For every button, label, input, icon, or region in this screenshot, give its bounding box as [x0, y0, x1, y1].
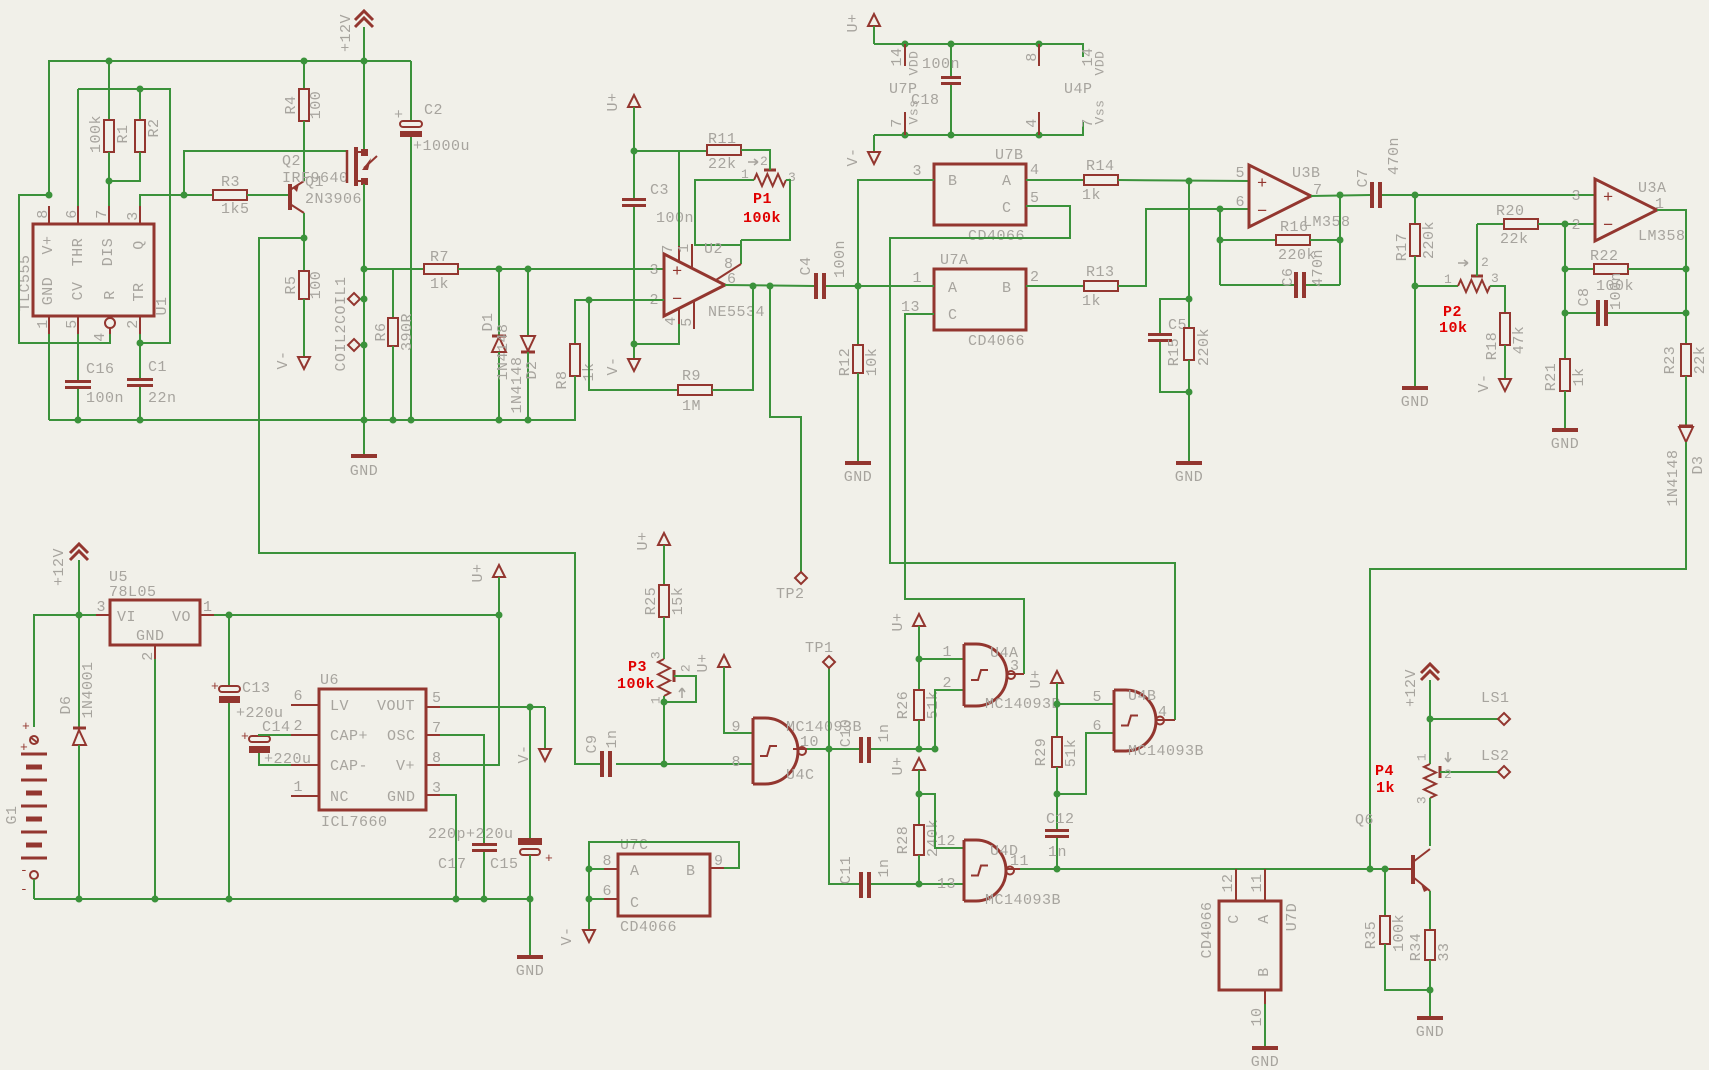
wire MOSFET source to rail [363, 61, 365, 149]
IC U7B CD4066 [934, 164, 1026, 225]
svg-text:V-: V- [845, 147, 862, 166]
svg-text:2N3906: 2N3906 [305, 191, 362, 208]
svg-text:U6: U6 [320, 672, 339, 689]
svg-text:R12: R12 [837, 348, 854, 377]
wire U4A pin1 [919, 658, 964, 660]
wire C14 to CAP- [259, 753, 291, 765]
svg-text:+: + [545, 851, 553, 866]
svg-text:11: 11 [1010, 853, 1029, 870]
svg-text:1k: 1k [1082, 293, 1101, 310]
resistor R29 51k [1056, 704, 1058, 737]
svg-text:U+: U+ [890, 612, 907, 631]
wire R9 left leg [589, 300, 678, 390]
NAND gate U4C MC14093B [753, 718, 798, 784]
svg-text:1: 1 [676, 243, 693, 253]
svg-text:7: 7 [660, 244, 677, 254]
diode D3 1N4148 [1679, 425, 1693, 428]
svg-text:+: + [211, 679, 219, 694]
battery G1 [30, 736, 38, 744]
svg-text:1n: 1n [876, 723, 893, 742]
svg-text:51k: 51k [925, 691, 942, 720]
svg-text:3: 3 [1571, 188, 1581, 205]
svg-text:A: A [948, 280, 958, 297]
wire bottom gnd rail [34, 898, 530, 900]
NAND gate U4D MC14093B [964, 840, 1006, 901]
svg-text:B: B [1256, 967, 1273, 977]
wire R14 node to C5 R15 [1188, 181, 1190, 299]
svg-text:P1: P1 [753, 191, 772, 208]
supply V- below R5 [298, 357, 310, 369]
svg-text:8: 8 [602, 853, 612, 870]
svg-text:220k: 220k [1421, 221, 1438, 259]
ground GND below U7D [1252, 1046, 1278, 1050]
svg-text:LS1: LS1 [1481, 690, 1510, 707]
resistor R7 [364, 268, 424, 270]
wire U3B output [1311, 195, 1370, 196]
svg-text:U+: U+ [845, 13, 862, 32]
svg-text:+: + [241, 729, 249, 744]
resistor R15 220k [1188, 299, 1190, 328]
wire D3 to Q6 base route [1370, 442, 1686, 869]
resistor R2 [139, 89, 141, 120]
resistor R23 22k [1681, 344, 1691, 376]
svg-text:C16: C16 [86, 361, 115, 378]
svg-text:2: 2 [1030, 269, 1040, 286]
svg-text:VOUT: VOUT [377, 698, 415, 715]
svg-text:14: 14 [889, 47, 906, 66]
svg-text:V+: V+ [396, 758, 415, 775]
supply U+ above R25 [658, 533, 670, 545]
svg-text:D3: D3 [1690, 455, 1707, 474]
svg-text:GND: GND [1401, 394, 1430, 411]
supply U+ above U4B pin5 [1051, 671, 1063, 683]
svg-text:3: 3 [1491, 271, 1499, 286]
svg-text:+: + [672, 263, 683, 282]
svg-text:R13: R13 [1086, 264, 1115, 281]
svg-text:1: 1 [942, 644, 952, 661]
svg-text:VO: VO [172, 609, 191, 626]
svg-text:2: 2 [1444, 767, 1452, 782]
capacitor C3 [633, 151, 635, 198]
svg-text:2: 2 [942, 675, 952, 692]
wire C14 to CAP+ [259, 735, 291, 736]
svg-text:C10: C10 [838, 719, 855, 748]
resistor R34 33 [1425, 930, 1435, 960]
resistor R35 100k [1384, 869, 1386, 916]
svg-text:GND: GND [1175, 469, 1204, 486]
ground GND below R21 [1552, 428, 1578, 432]
svg-text:GND: GND [1416, 1024, 1445, 1041]
svg-text:COIL2COIL1: COIL2COIL1 [333, 276, 350, 371]
svg-text:R8: R8 [554, 370, 571, 389]
wire U7A pin1 [858, 285, 934, 287]
svg-text:Q: Q [131, 240, 148, 250]
svg-text:Q2: Q2 [282, 153, 301, 170]
resistor R1 [108, 61, 110, 120]
svg-text:P4: P4 [1375, 763, 1394, 780]
potentiometer P4 1k [1429, 719, 1431, 764]
wire U3B feedback node [1219, 209, 1221, 285]
IC U7A CD4066 [934, 269, 1026, 330]
capacitor C18 [950, 44, 952, 76]
wire U4B pin6 [1057, 733, 1114, 794]
svg-text:THR: THR [70, 238, 87, 267]
svg-text:220p: 220p [428, 826, 466, 843]
wire pin4 to V- [634, 324, 679, 344]
wire U7A pin13 control route [905, 314, 1024, 674]
svg-text:5: 5 [432, 690, 442, 707]
svg-text:100k: 100k [1391, 914, 1408, 952]
supply U+ above R28 [913, 758, 925, 770]
svg-text:R4: R4 [283, 95, 300, 114]
svg-text:GND: GND [844, 469, 873, 486]
svg-text:R3: R3 [221, 174, 240, 191]
NAND gate U4B MC14093B [1114, 690, 1156, 751]
svg-text:LS2: LS2 [1481, 748, 1510, 765]
svg-text:CAP-: CAP- [330, 758, 368, 775]
svg-text:5: 5 [1030, 190, 1040, 207]
resistor R14 [1084, 175, 1118, 185]
wire U7B pin4 to R14 [1026, 179, 1084, 181]
supply U+ above C3 [628, 95, 640, 107]
wire U4B pin5 [1057, 703, 1114, 705]
svg-text:1n: 1n [604, 729, 621, 748]
svg-text:100n: 100n [922, 56, 960, 73]
supply V- below U7C [583, 930, 595, 942]
wire VSS rail [874, 122, 1083, 135]
svg-text:78L05: 78L05 [109, 584, 157, 601]
wire pin1 to ground rail [48, 334, 50, 420]
svg-text:3: 3 [1010, 658, 1020, 675]
svg-text:+12V: +12V [338, 14, 355, 52]
svg-text:V-: V- [1476, 373, 1493, 392]
svg-text:R11: R11 [708, 131, 737, 148]
svg-text:9: 9 [731, 719, 741, 736]
svg-text:3: 3 [648, 651, 663, 659]
wire U7A pin2 to R13 [1026, 285, 1084, 287]
svg-text:22k: 22k [1500, 231, 1529, 248]
wire gate line [184, 151, 348, 195]
svg-text:U4B: U4B [1128, 688, 1157, 705]
svg-text:1n: 1n [1048, 844, 1067, 861]
svg-text:LM358: LM358 [1638, 228, 1686, 245]
op-amp U2 pin1 stub [691, 244, 693, 269]
wire U7B pin5 control route [890, 206, 1175, 720]
svg-text:ICL7660: ICL7660 [321, 814, 388, 831]
resistor R28 240k [918, 794, 920, 825]
svg-text:U+: U+ [1028, 669, 1045, 688]
svg-text:1: 1 [203, 599, 213, 616]
svg-text:D2: D2 [524, 360, 541, 379]
svg-text:R22: R22 [1590, 248, 1619, 265]
svg-text:2: 2 [293, 718, 303, 735]
svg-text:GND: GND [1251, 1054, 1280, 1070]
IC U5 78L05 [110, 600, 200, 645]
svg-text:C17: C17 [438, 856, 467, 873]
wire pin2 input [575, 300, 664, 344]
potentiometer P3 100k [658, 659, 670, 696]
wire bottom rail [49, 376, 575, 420]
resistor R11 [679, 150, 707, 152]
resistor R9 [678, 385, 712, 395]
svg-text:C6: C6 [1280, 267, 1297, 286]
svg-text:100n: 100n [656, 210, 694, 227]
wire U5 output 5V line [214, 614, 499, 616]
wire U4C output [807, 748, 859, 750]
wire P1 pin1 loop [695, 180, 754, 245]
svg-text:R15: R15 [1166, 338, 1183, 367]
wire Q6 emitter [1429, 891, 1431, 930]
svg-text:CAP+: CAP+ [330, 728, 368, 745]
wire Q output node [140, 195, 184, 206]
svg-text:22n: 22n [148, 390, 177, 407]
svg-text:A: A [1256, 914, 1273, 924]
svg-text:R23: R23 [1662, 346, 1679, 375]
svg-text:3: 3 [912, 163, 922, 180]
svg-text:U4P: U4P [1064, 81, 1093, 98]
wire P2 pin3 to R18 [1490, 286, 1505, 313]
svg-text:R: R [102, 290, 119, 300]
svg-text:R20: R20 [1496, 203, 1525, 220]
svg-text:VDD: VDD [906, 51, 921, 76]
svg-text:C11: C11 [838, 856, 855, 885]
wire U4C pin9 [724, 667, 753, 733]
svg-text:C3: C3 [650, 182, 669, 199]
capacitor C1 [139, 334, 141, 378]
supply U+ above U6 [493, 565, 505, 577]
svg-text:V-: V- [275, 350, 292, 369]
svg-text:2: 2 [678, 664, 693, 672]
svg-text:1n: 1n [876, 858, 893, 877]
svg-text:CV: CV [70, 281, 87, 300]
wire U6 GND pin3 [440, 795, 456, 899]
svg-text:5: 5 [1092, 689, 1102, 706]
svg-text:D6: D6 [58, 695, 75, 714]
svg-text:22k: 22k [1692, 346, 1709, 375]
wire MOSFET drain down [363, 184, 365, 420]
svg-text:R5: R5 [283, 275, 300, 294]
svg-text:G1: G1 [4, 805, 21, 824]
svg-text:1: 1 [912, 270, 922, 287]
NAND gate U4A MC14093B [964, 644, 1007, 706]
svg-text:51k: 51k [1063, 739, 1080, 768]
capacitor C4 [814, 273, 818, 299]
svg-text:1M: 1M [682, 398, 701, 415]
svg-text:V-: V- [559, 926, 576, 945]
svg-text:MC14093B: MC14093B [1128, 743, 1204, 760]
svg-text:4: 4 [1158, 704, 1168, 721]
capacitor C14 polarized [249, 736, 270, 742]
IC U6 ICL7660 [319, 689, 426, 810]
svg-text:GND: GND [350, 463, 379, 480]
wire U4C out down to C11 [829, 749, 859, 884]
svg-text:390R: 390R [399, 313, 416, 351]
svg-text:47k: 47k [1511, 326, 1528, 355]
svg-text:IRF9640: IRF9640 [282, 170, 349, 187]
svg-text:U2: U2 [704, 241, 723, 258]
svg-text:220k: 220k [1196, 328, 1213, 366]
svg-text:R7: R7 [430, 249, 449, 266]
wire pin8 node [46, 192, 53, 199]
resistor R4 [303, 61, 305, 89]
wire U3B output feedback [1339, 195, 1341, 285]
svg-text:1k: 1k [1571, 367, 1588, 386]
supply V- from VOUT [544, 707, 546, 749]
wire VDD rail [874, 44, 1083, 57]
svg-text:U7A: U7A [940, 252, 969, 269]
svg-text:R28: R28 [895, 826, 912, 855]
supply V- below R18 [1499, 379, 1511, 391]
svg-text:1N4148: 1N4148 [1665, 449, 1682, 506]
ground GND below Q6 [1417, 1016, 1443, 1020]
capacitor C16 [77, 334, 79, 380]
svg-text:1: 1 [1414, 753, 1429, 761]
svg-text:C: C [948, 307, 958, 324]
pin header COIL1 [348, 293, 360, 305]
svg-text:6: 6 [1092, 718, 1102, 735]
svg-text:U+: U+ [695, 653, 712, 672]
wire U7B pin3 [858, 180, 934, 286]
svg-text:4: 4 [1030, 162, 1040, 179]
svg-text:33: 33 [1436, 942, 1453, 961]
wire U5 gnd [154, 659, 156, 899]
svg-text:U4C: U4C [786, 767, 815, 784]
transistor Q2 IRF9640 P-MOSFET [346, 150, 349, 183]
wire U+ to U6 V+ pin8 [440, 615, 499, 765]
svg-text:100n: 100n [832, 240, 849, 278]
svg-text:+: + [1603, 189, 1614, 208]
svg-text:6: 6 [293, 688, 303, 705]
test point TP2 [770, 286, 801, 572]
svg-text:NE5534: NE5534 [708, 304, 765, 321]
capacitor C6 470n [1220, 284, 1294, 286]
wire U6 VOUT negative rail [440, 706, 545, 708]
svg-text:NC: NC [330, 789, 349, 806]
svg-text:B: B [1002, 280, 1012, 297]
svg-text:U3A: U3A [1638, 180, 1667, 197]
svg-text:C: C [630, 895, 640, 912]
svg-text:C18: C18 [911, 92, 940, 109]
wire P1 pin3 loop [741, 180, 790, 240]
supply U+ above R26 [913, 614, 925, 626]
wire U4A pin2 [919, 690, 964, 749]
svg-text:3: 3 [649, 262, 659, 279]
svg-text:15k: 15k [670, 587, 687, 616]
supply V- below C3 [633, 344, 635, 358]
supply V- below U7P rail [873, 135, 875, 152]
svg-text:7: 7 [1080, 118, 1097, 128]
resistor R18 47k [1500, 313, 1510, 345]
svg-text:1k: 1k [1082, 187, 1101, 204]
resistor R26 51k [918, 659, 920, 690]
IC U1 TLC555 [33, 224, 154, 316]
diode D2 1N4148 [527, 269, 529, 337]
svg-text:GND: GND [516, 963, 545, 980]
wire U4D output to Q6 base [1020, 868, 1389, 870]
svg-text:470n: 470n [1310, 249, 1327, 287]
svg-text:U+: U+ [470, 563, 487, 582]
svg-text:C1: C1 [148, 359, 167, 376]
svg-text:+1000u: +1000u [413, 138, 470, 155]
svg-text:R6: R6 [373, 322, 390, 341]
svg-text:A: A [630, 863, 640, 880]
svg-text:CD4066: CD4066 [620, 919, 677, 936]
svg-text:GND: GND [387, 789, 416, 806]
capacitor C8 100n [1565, 312, 1596, 314]
svg-text:100k: 100k [743, 210, 781, 227]
svg-text:6: 6 [1235, 194, 1245, 211]
capacitor C5 [1160, 299, 1189, 333]
svg-text:C12: C12 [1046, 811, 1075, 828]
ground GND main left [363, 420, 365, 455]
svg-text:R16: R16 [1280, 219, 1309, 236]
svg-text:C4: C4 [798, 256, 815, 275]
svg-text:DIS: DIS [100, 238, 117, 267]
svg-text:R2: R2 [146, 118, 163, 137]
svg-text:C: C [1002, 200, 1012, 217]
wire U7C loop [589, 842, 739, 930]
wire pin7 vertical [108, 181, 110, 206]
capacitor C13 polarized [228, 615, 230, 686]
speaker pin LS2 [1446, 771, 1498, 773]
op-amp U2 pin7 stub [678, 246, 680, 262]
wire U3A output down [1657, 210, 1686, 344]
svg-text:+12V: +12V [51, 548, 68, 586]
svg-text:+: + [1257, 175, 1268, 194]
svg-text:100: 100 [308, 271, 325, 300]
svg-text:4: 4 [1024, 118, 1041, 128]
svg-text:R29: R29 [1033, 738, 1050, 767]
svg-text:GND: GND [40, 277, 57, 306]
resistor R21 1k [1560, 359, 1570, 391]
power pins U7P [904, 44, 906, 66]
svg-text:+: + [22, 719, 30, 734]
svg-text:R35: R35 [1363, 921, 1380, 950]
svg-text:P2: P2 [1443, 304, 1462, 321]
svg-text:GND: GND [136, 628, 165, 645]
svg-text:CD4066: CD4066 [968, 333, 1025, 350]
capacitor C17 220p [440, 735, 484, 843]
diode D6 1N4001 [78, 615, 80, 728]
ground GND below R12 [845, 461, 871, 465]
capacitor C9 1n [600, 751, 604, 777]
svg-text:13: 13 [937, 876, 956, 893]
svg-text:C13: C13 [242, 680, 271, 697]
power pins U2P [1038, 44, 1040, 66]
svg-text:R14: R14 [1086, 158, 1115, 175]
pin header COIL2 [348, 339, 360, 351]
svg-text:OSC: OSC [387, 728, 416, 745]
svg-text:1: 1 [293, 779, 303, 796]
svg-text:U1: U1 [154, 296, 171, 315]
svg-text:5: 5 [1235, 165, 1245, 182]
resistor R20 22k [1504, 219, 1538, 229]
resistor R5 [299, 271, 309, 299]
svg-text:100n: 100n [86, 390, 124, 407]
capacitor C11 1n [859, 872, 863, 898]
wire to pin8 [740, 240, 742, 264]
svg-text:VDD: VDD [1092, 51, 1107, 76]
svg-text:12: 12 [937, 833, 956, 850]
svg-text:R17: R17 [1394, 233, 1411, 262]
svg-text:+220u: +220u [466, 826, 514, 843]
svg-text:R18: R18 [1484, 332, 1501, 361]
svg-text:10k: 10k [864, 348, 881, 377]
svg-text:U7C: U7C [620, 837, 649, 854]
svg-text:B: B [948, 173, 958, 190]
svg-text:GND: GND [1551, 436, 1580, 453]
svg-text:R21: R21 [1543, 363, 1560, 392]
